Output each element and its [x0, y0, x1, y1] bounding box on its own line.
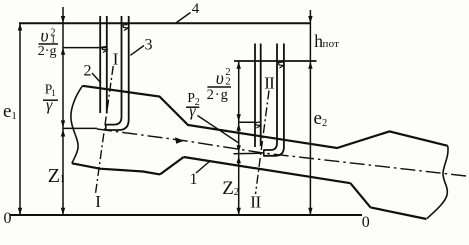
Pitot 2 mouth	[263, 149, 265, 156]
arrow tip down at datum (Z1)	[61, 208, 65, 215]
fraction bar P2	[186, 106, 199, 108]
svg-text:υ: υ	[216, 68, 224, 88]
dimension line at x=63 (v1^2/2g, P1/gamma, Z1)	[62, 7, 64, 215]
fraction P2/gamma	[187, 90, 199, 108]
svg-text:υ: υ	[41, 26, 49, 46]
Pitot tube at section II (walls with elbow facing flow)	[264, 44, 277, 151]
pipe expansion lower drop	[350, 183, 370, 207]
axis level line section 2	[234, 152, 261, 155]
dimension line e1	[19, 23, 21, 215]
svg-text:3: 3	[145, 37, 153, 54]
Pitot tube 3 at section I (walls with elbow facing flow)	[106, 16, 122, 125]
label 3 leader	[130, 46, 144, 56]
label 2 leader	[92, 73, 101, 83]
svg-text:γ: γ	[46, 97, 53, 114]
svg-text:4: 4	[192, 1, 200, 17]
Pitot 1 mouth	[105, 124, 107, 131]
fraction bar P1	[43, 99, 58, 101]
svg-text:Z2: Z2	[222, 178, 239, 199]
pipe converging lower wall	[160, 157, 184, 174]
arrow tip down at axis level 2	[237, 145, 241, 152]
leader P2 to dimension line	[198, 116, 239, 143]
pipe right break line	[427, 146, 448, 219]
pipe left break line	[71, 86, 83, 164]
svg-text:e1: e1	[3, 101, 17, 122]
pipe lower wall left	[72, 163, 160, 174]
svg-text:I: I	[113, 50, 119, 69]
fraction v1^2/2g	[41, 26, 56, 46]
arrow tip up below piezometric level 2	[237, 123, 241, 130]
arrow tip up at energy line 2	[308, 62, 312, 69]
arrow tip down at line 4 right	[308, 16, 312, 23]
arrow pair at axis level section I	[61, 120, 65, 127]
svg-text:II: II	[250, 193, 261, 212]
svg-text:0: 0	[362, 214, 370, 231]
svg-text:1: 1	[60, 174, 65, 185]
pipe axis centerline (dash-dot)	[97, 129, 466, 176]
meniscus in piezometer 2	[256, 122, 261, 128]
dimension line x=310 (h_pot and e2)	[309, 10, 311, 215]
section line II-II (dash-dot)	[256, 91, 270, 195]
svg-text:II: II	[264, 74, 275, 93]
arrow e1 top	[18, 23, 22, 30]
arrow tip up below axis level 2 (Z2 top)	[237, 156, 241, 163]
label 1 leader	[196, 161, 210, 173]
arrow e1 bottom	[18, 208, 22, 215]
svg-text:2·g: 2·g	[38, 44, 57, 59]
fraction v2^2/2g	[216, 67, 231, 88]
arrow tip down at datum (Z2)	[237, 208, 241, 215]
energy line at section 2 (after head loss)	[234, 60, 317, 62]
pipe lower wall right	[371, 207, 427, 219]
meniscus in Pitot 2	[279, 62, 284, 68]
fraction P1/gamma	[45, 81, 56, 98]
piezometric level line section 2	[239, 121, 256, 123]
pipe throat lower wall	[184, 157, 351, 183]
arrow tip down at piezometric level 2	[237, 114, 241, 121]
datum line 0-0	[10, 214, 362, 216]
meniscus in piezometer 1	[102, 47, 107, 53]
piezometer tube 2 at section I (walls)	[99, 16, 101, 113]
svg-text:2: 2	[84, 63, 92, 80]
label 4 leader	[177, 13, 191, 23]
svg-text:2·g: 2·g	[207, 87, 229, 103]
fraction bar v2	[207, 86, 231, 88]
svg-text:1: 1	[190, 171, 198, 188]
svg-text:0: 0	[4, 210, 12, 227]
section line I-I (dash-dot)	[96, 66, 114, 194]
piezometer tube at section II (walls)	[254, 44, 256, 148]
svg-text:e2: e2	[314, 108, 328, 129]
arrow tip down at datum (e2)	[308, 208, 312, 215]
pipe upper wall	[83, 86, 448, 148]
arrow tip down at line 4	[61, 16, 65, 23]
piezometric level line section 1	[63, 47, 108, 49]
fraction bar v1	[39, 43, 59, 45]
svg-text:γ: γ	[189, 103, 196, 120]
svg-text:пот: пот	[323, 38, 340, 50]
dimension line x=238.7 (v2^2/2g, P2/gamma, Z2)	[238, 61, 240, 215]
arrow tip up at piezometric level 1	[61, 48, 65, 55]
flow direction arrowhead on axis	[175, 137, 184, 144]
meniscus in Pitot 1	[123, 25, 128, 31]
axis level line section 1	[63, 127, 97, 129]
arrow tip up at energy line 2 left	[237, 62, 241, 69]
energy line 4 (ideal total head line)	[19, 22, 311, 24]
svg-text:I: I	[95, 192, 101, 211]
svg-text:Z: Z	[48, 165, 60, 187]
